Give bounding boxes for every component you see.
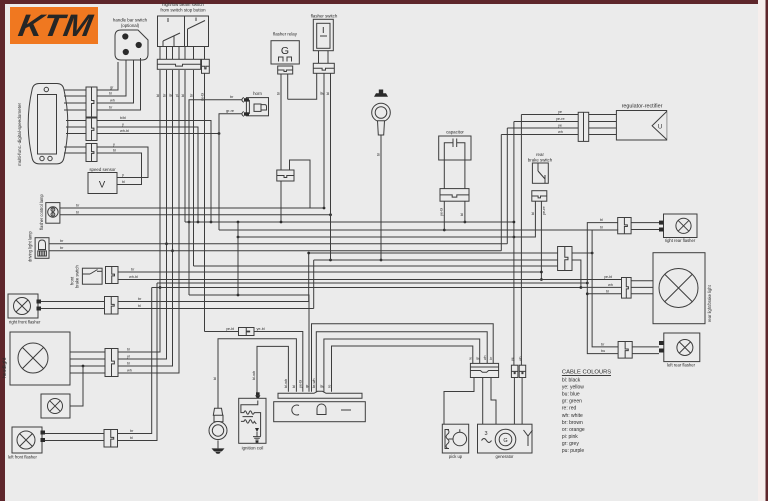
svg-text:G: G [503,438,507,444]
bus B287 [152,287,581,289]
stubs high/low switch to bar [159,47,161,60]
right front flasher connector [105,297,119,315]
wire ye-bl to CDI [205,332,303,392]
generator connector [470,363,498,377]
svg-text:y: y [122,173,124,177]
svg-text:speed sensor: speed sensor [89,167,116,172]
svg-text:br-wh: br-wh [312,379,316,389]
headlight body [10,332,70,385]
svg-text:ignition coil: ignition coil [242,446,264,451]
wire GC to generator [482,378,484,425]
svg-text:wh: white: wh: white [562,413,583,419]
svg-text:multi-func.-digital-speedomete: multi-func.-digital-speedometer [17,102,22,166]
headlight connector [105,349,118,377]
front brake switch body [82,268,102,284]
wire bar 6 to bus B9 [193,70,195,266]
ignition coil body [239,398,266,443]
svg-text:bl: bl [600,218,603,222]
svg-text:brake switch: brake switch [75,265,80,288]
CDI symbol minus [341,409,351,411]
svg-text:pi: pink: pi: pink [562,434,578,440]
left rear flasher body [664,333,700,362]
wire left rear flasher top [592,230,618,347]
driving light lamp body [35,238,49,259]
high/low beam switch blade left [163,33,180,41]
wire regulator riser 4 (ye) [520,115,522,366]
speedometer display [38,95,57,155]
svg-text:V: V [99,180,106,191]
flasher relay body [271,41,299,64]
wire rear brake switch right (ye-re) [540,201,542,279]
wire flasher switch bl [330,73,332,260]
svg-text:ye: yellow: ye: yellow [562,385,584,391]
svg-text:high/low beam switch: high/low beam switch [162,2,204,7]
CDI body [274,402,366,422]
svg-text:driving light lamp: driving light lamp [28,231,33,262]
spark plug ring [209,422,227,440]
svg-text:bl: bl [138,304,141,308]
svg-text:gr: grey: gr: grey [562,441,579,447]
wire left front flasher bottom [45,440,104,442]
wire driving light br 1 (B5) [49,243,507,245]
right front flasher body [8,294,38,318]
wire rear light top (ye-bl) [611,279,622,281]
svg-text:bl: bl [531,212,535,215]
left front flasher body [12,427,42,453]
speed sensor body [88,173,117,194]
pick up magnet [453,432,467,446]
flasher switch connector [313,63,334,73]
svg-text:bl: bl [213,377,217,380]
svg-text:wh: wh [558,130,563,134]
wire speedo conn3 to speed sensor (bl) [97,153,142,185]
wire right front flasher top [41,301,105,303]
svg-text:gr-re: gr-re [226,109,234,113]
right rear flasher terminals [659,221,664,225]
pick up coil symbol [445,430,449,449]
rear brake switch body [532,163,548,183]
wire flasher relay right [287,74,289,99]
svg-text:bl: bl [181,94,185,97]
wire handle bar switch to speedometer conn1 (bl) [97,60,127,96]
svg-text:flasher control lamp: flasher control lamp [39,194,44,230]
generator sine [482,439,492,443]
bus B3 (bl) [185,221,514,223]
wire regulator riser 1 (wh) [500,135,502,251]
connector wh [519,365,526,377]
wires headlight to connector [70,351,105,353]
junction parking lamp / headlight wire [82,365,85,368]
rear light connector [622,278,632,299]
high/low beam switch aux connector [202,59,210,73]
left front flasher terminals [41,431,46,435]
wire driving light br 2 (B6) [49,250,501,252]
svg-text:bl: bl [127,348,130,352]
svg-text:re: red: re: red [562,406,577,412]
svg-text:bl: bl [109,92,112,96]
left front flasher connector [104,430,118,448]
svg-text:brake switch: brake switch [528,158,553,163]
wire coil primary [257,346,288,397]
capacitor connector [440,189,469,202]
bus B283 [157,282,587,284]
left rear flasher connector [618,342,632,359]
svg-text:pick up: pick up [449,454,463,459]
horn terminal 1 [244,98,249,101]
svg-text:regulator-rectifier: regulator-rectifier [622,104,663,110]
left rear flasher lamp [677,340,693,356]
wire speedo y [97,127,198,222]
wire handle bar switch to speedometer conn1 (wh) [97,60,134,103]
wire bar 1 headlight feed [118,70,160,352]
svg-text:flasher relay: flasher relay [273,32,298,37]
svg-text:wh-bl: wh-bl [120,129,129,133]
svg-text:ye: ye [558,124,562,128]
border frame top [0,0,768,4]
high/low beam switch connector bar [157,59,200,69]
wire CDI L2 to generator connector [316,332,487,392]
wire flasher switch br [288,73,317,99]
svg-text:ye-bl: ye-bl [299,380,303,388]
svg-text:headlight: headlight [2,357,8,378]
wire wh connector to generator [521,378,523,425]
wire CDI L3 to generator connector [324,339,480,392]
plug connector cap [374,93,388,97]
svg-text:bl: bl [127,362,130,366]
bus B295 [189,295,309,392]
parking lamp [48,399,63,414]
parking lamp body [41,394,70,418]
svg-text:horn: horn [253,91,262,96]
high/low beam switch blade right [188,21,206,30]
svg-text:bl-wh: bl-wh [284,379,288,388]
wires headlight connector right [118,351,160,353]
plug connector ring [372,103,391,122]
stubs flasher switch to connector [318,51,320,64]
left rear flasher terminals [659,341,664,345]
svg-text:capacitor: capacitor [446,130,464,135]
svg-text:bl: bl [277,92,281,95]
wire CDI L4 to generator connector [332,346,473,392]
CDI connector strip [278,391,362,398]
capacitor leads [443,160,445,189]
high/low beam switch body [158,16,209,47]
svg-text:flasher switch: flasher switch [311,13,338,18]
speedometer connector 1 [86,87,97,117]
svg-text:wh: wh [519,356,523,361]
wire front brake wh-bl (B11) [118,279,622,281]
generator G circle [495,429,516,450]
right rear flasher lamp [676,218,691,233]
svg-text:U: U [658,125,662,131]
speedometer screws bottom [40,156,44,160]
ignition coil windings [241,401,261,437]
junction plug wire / B8 [380,259,383,262]
flasher relay inline connector [277,170,294,181]
horn body [246,98,268,116]
svg-text:bl: bl [156,94,160,97]
wire bar 3 headlight feed [118,70,173,366]
svg-text:ye-bl: ye-bl [440,208,444,216]
ignition coil internal wires [255,428,259,432]
svg-text:bl: bl [326,92,330,95]
svg-text:handle bar switch: handle bar switch [113,18,148,23]
wire regulator ye 2 [589,127,617,129]
svg-text:right front flasher: right front flasher [9,320,41,325]
junction capacitor / B4 [443,229,446,232]
wire right rear flasher bottom [617,229,619,232]
horn terminal 2 [244,112,249,115]
right front flasher lamp [14,298,31,315]
wire handle bar switch to speedometer conn1 (br) [97,58,141,110]
svg-text:bl: bl [122,180,125,184]
svg-text:yl: yl [175,94,179,97]
wire V238 [237,222,239,295]
svg-text:3: 3 [484,431,487,437]
wire flasher relay left (bl-br) [280,74,282,170]
svg-text:generator: generator [496,454,515,459]
svg-text:wh: wh [127,369,132,373]
capacitor body [439,136,471,160]
svg-text:ye: ye [511,357,515,361]
wire front brake br (B10) [118,271,541,273]
svg-text:left rear flasher: left rear flasher [667,363,696,368]
svg-text:re: re [469,357,473,360]
svg-text:wh: wh [608,283,613,287]
wire GC to pick up [444,378,474,425]
generator Y symbol [524,430,533,446]
wire bar 5 to bus B3 [184,70,186,222]
multi-func digital speedometer body [28,84,68,164]
wire handle bar switch to speedometer conn1 (gr) [97,62,119,90]
svg-text:bl: bl [292,385,296,388]
border frame left [0,0,5,501]
generator body [478,424,533,453]
wires speedometer to connector 1 [64,89,86,91]
wire capacitor to bus B4 (ye-bl) [443,201,445,230]
svg-text:G: G [281,45,289,57]
svg-text:bl: bl [600,226,603,230]
svg-text:right rear flasher: right rear flasher [665,238,696,243]
junction capacitor / B3 [464,221,467,224]
wire bar 4 headlight feed [118,70,179,373]
spark plug body [213,408,223,422]
wire regulator wh [589,134,617,136]
CDI symbol C [292,405,299,415]
connector ye [511,365,518,377]
wire flasher switch gr [323,73,325,208]
wire rear brake switch left (bl) [514,201,536,237]
svg-text:ye-bl: ye-bl [226,327,234,331]
bus B4 (gr-re) [219,229,618,231]
svg-text:from switch stop button: from switch stop button [160,8,206,13]
svg-text:bl: black: bl: black [562,378,581,384]
svg-text:rear: rear [536,152,544,157]
svg-text:re: re [327,385,331,388]
svg-text:gr: green: gr: green [562,399,582,405]
svg-text:ye-re: ye-re [556,117,565,121]
speedometer connector 2 [86,118,97,141]
wire flasher control lamp bl (B2) [60,214,331,216]
svg-text:ye-bl: ye-bl [604,275,612,279]
inline connector ye-bl [239,328,255,336]
wire capacitor to bus B3 (bl) [464,201,466,222]
svg-text:pu: purple: pu: purple [562,448,584,454]
wire GC to generator 2 [491,378,496,425]
wire regulator riser 3 (ye-re) [513,122,515,366]
wire plug connector down (bl) [380,135,382,260]
wire horn br [189,100,242,295]
right rear flasher connector [618,218,631,234]
left front flasher lamp [17,431,35,449]
rear brake switch connector [532,191,547,202]
bus B237 [238,236,514,238]
wire speedo wh-bl [97,133,219,135]
svg-text:wh: wh [110,99,115,103]
wire ye-bl from aux connector [204,73,206,331]
regulator-rectifier body [616,111,666,141]
wire speedo b-bl [97,121,211,223]
inline connector rear harness [558,247,572,271]
svg-text:bl: bl [606,289,609,293]
speedometer connector 3 [86,144,97,162]
svg-text:y: y [113,143,115,147]
CDI symbol D [317,404,326,415]
svg-text:bu: blue: bu: blue [562,392,580,398]
handle bar switch body [115,30,148,60]
wire rear light bottom (bl) [587,293,621,295]
svg-text:bl: bl [130,436,133,440]
svg-text:or: orange: or: orange [562,427,585,433]
wire regulator ye-re [589,121,617,123]
svg-text:bl: bl [460,213,464,216]
wire CDI L1 to generator connector [312,324,494,392]
right front flasher terminals [37,300,42,304]
wire horn gr-re [219,114,242,230]
svg-text:ye: ye [558,110,562,114]
rear light lamp [659,269,698,308]
wire bar 2 headlight feed [118,70,167,359]
wires speedometer to connector 2 [66,120,86,122]
svg-text:bl: bl [377,153,381,156]
wire parking lamp [70,366,83,406]
pick up body [442,424,468,453]
svg-text:bu: bu [601,349,605,353]
wires speedometer to connector 3 [64,146,86,148]
headlight lamp [18,343,48,373]
svg-text:ye-bl: ye-bl [257,327,265,331]
wire relay connector down left [280,181,282,222]
wire right front flasher bottom [41,308,105,310]
coil terminal arrow [255,395,260,400]
bus B8 [314,260,581,287]
wire flasher control lamp br (B1) [60,207,324,209]
front brake switch connector [106,267,119,284]
ground ignition coil [253,432,261,440]
wire ye connector to generator [513,378,515,425]
junction rear brake wire / regulator riser 3 [513,236,516,239]
rear light box [653,253,705,324]
wire regulator riser 2 (ye) [506,128,508,244]
right rear flasher body [664,214,698,238]
svg-text:(optional): (optional) [121,23,140,28]
svg-text:left front flasher: left front flasher [8,455,37,460]
svg-text:KTM: KTM [16,8,96,43]
KTM logo box [10,7,98,44]
svg-text:bl: bl [113,149,116,153]
svg-text:yl: yl [127,355,130,359]
wire left rear flasher bottom [632,353,659,355]
svg-text:wh: wh [483,355,487,360]
bus B7 [309,252,592,254]
wire speedo conn3 to speed sensor (y) [97,147,148,178]
wire regulator ye 1 [589,114,617,116]
svg-text:b/bl: b/bl [120,116,126,120]
svg-text:CABLE COLOURS: CABLE COLOURS [562,370,611,376]
junction rear brake / B11 [540,278,543,281]
regulator-rectifier connector [578,112,589,141]
ground spark plug [217,440,219,448]
speedometer screw top [44,87,48,91]
wire relay connector down right [290,160,311,208]
wire rear light mid (wh) [581,286,622,288]
svg-text:rear light/brake light: rear light/brake light [707,284,712,322]
bus B9 [194,265,573,267]
svg-text:wh-bl: wh-bl [129,275,138,279]
wire spark plug bl [218,339,296,409]
svg-text:bl-wh: bl-wh [252,371,256,380]
svg-text:bl: bl [76,210,79,214]
border frame right [766,0,768,501]
border frame right pale strip [758,0,766,501]
plug connector stem [378,121,385,135]
flasher relay connector [278,66,293,74]
wire left front flasher top [45,433,104,435]
flasher switch body [313,19,333,50]
flasher control lamp body [46,203,60,224]
handle bar switch pins [122,33,128,39]
svg-text:ye-re: ye-re [542,206,546,215]
svg-text:br: brown: br: brown [562,420,583,426]
wire right rear flasher top [587,223,618,354]
svg-text:y: y [122,123,124,127]
